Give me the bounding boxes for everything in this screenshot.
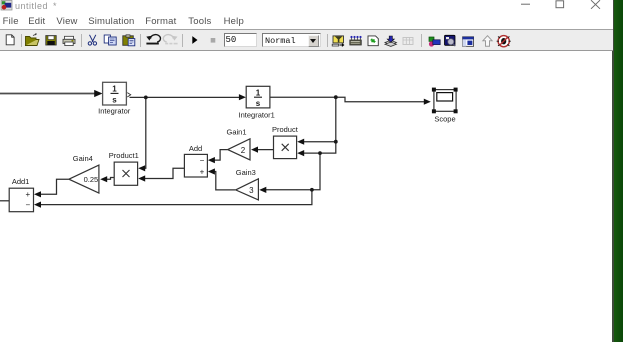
svg-text:Integrator1: Integrator1 [239, 110, 275, 119]
svg-text:3: 3 [249, 186, 254, 195]
svg-text:Product: Product [272, 125, 299, 134]
svg-text:−: − [25, 201, 30, 210]
svg-text:Scope: Scope [434, 115, 455, 124]
svg-text:Add: Add [189, 144, 202, 153]
svg-text:Gain3: Gain3 [236, 168, 256, 177]
svg-text:+: + [25, 190, 30, 199]
svg-text:Add1: Add1 [12, 177, 30, 186]
svg-text:s: s [256, 99, 261, 108]
svg-text:s: s [112, 96, 117, 105]
svg-text:Gain4: Gain4 [73, 154, 93, 163]
svg-text:1: 1 [256, 88, 261, 97]
svg-text:Gain1: Gain1 [226, 128, 246, 137]
svg-text:Product1: Product1 [109, 151, 139, 160]
svg-text:0.25: 0.25 [84, 175, 99, 184]
svg-text:2: 2 [241, 146, 246, 155]
svg-text:1: 1 [112, 85, 117, 94]
svg-text:−: − [200, 156, 205, 165]
svg-text:+: + [200, 168, 205, 177]
svg-text:Integrator: Integrator [98, 107, 131, 116]
